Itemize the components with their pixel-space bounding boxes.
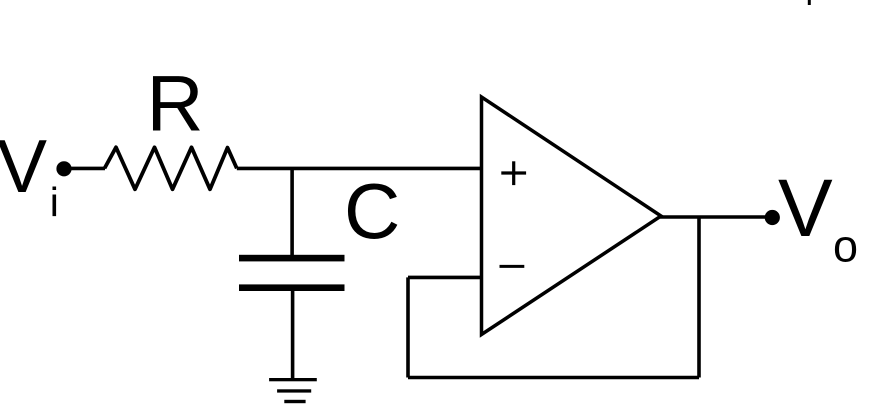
- svg-text:o: o: [833, 221, 858, 272]
- op-amp U1 minus input marker: [500, 265, 525, 268]
- svg-text:C: C: [344, 167, 400, 255]
- wire stub top right (cropped): [808, 0, 811, 5]
- node Vo junction dot: [765, 210, 780, 225]
- capacitor C bottom plate: [239, 284, 345, 291]
- wire feedback right vertical: [697, 217, 701, 378]
- resistor R: [105, 147, 237, 189]
- wire feedback bottom horizontal: [408, 376, 699, 380]
- wire Vi to resistor: [64, 167, 105, 171]
- svg-text:V: V: [778, 163, 833, 254]
- node Vi junction dot: [56, 161, 71, 176]
- svg-text:R: R: [147, 58, 204, 147]
- op-amp U1 plus input marker: [501, 161, 526, 185]
- svg-text:i: i: [50, 179, 59, 225]
- wire capacitor to ground: [291, 290, 295, 380]
- ground: [269, 378, 317, 403]
- wire node to capacitor: [290, 168, 294, 256]
- svg-text:V: V: [0, 124, 47, 208]
- op-amp U1: [482, 97, 662, 335]
- wire resistor to op-amp + input: [237, 167, 482, 171]
- wire op-amp output: [660, 215, 772, 218]
- wire feedback left vertical: [406, 277, 410, 377]
- capacitor C top plate: [239, 255, 345, 262]
- wire feedback to op-amp minus input: [408, 276, 482, 280]
